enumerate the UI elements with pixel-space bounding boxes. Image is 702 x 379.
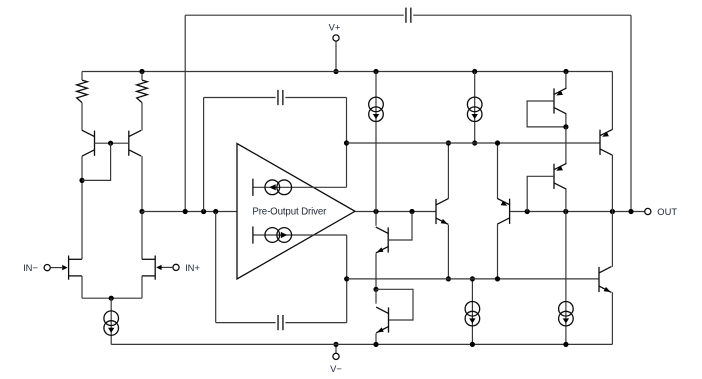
wire lower Miller loop bottom	[216, 322, 276, 324]
svg-text:IN−: IN−	[23, 262, 38, 273]
wire Q7 emitter vertical	[565, 72, 567, 89]
node Q2 collector / J2 drain / driver input	[139, 209, 144, 214]
node comp cap tap	[183, 209, 188, 214]
terminal OUT	[645, 206, 678, 217]
wire right drop of C3 to OUT node	[630, 15, 632, 211]
wire lower Miller loop right vertical	[346, 235, 348, 323]
wire upper internal source lead	[253, 186, 347, 188]
wire Q10 emitter to rail	[611, 292, 613, 344]
wire top compensation from input node to OUT	[185, 14, 404, 16]
node Q3 collector tap	[373, 209, 378, 214]
terminal V-	[330, 344, 342, 374]
node Q5 emitter rail junction	[373, 342, 378, 347]
wire upper Miller loop right vertical	[346, 98, 348, 188]
wire I6 vertical	[471, 279, 473, 345]
node Q6 collector bias tap	[495, 276, 500, 281]
node I6 top tap	[470, 276, 475, 281]
wire Q9 emitter from rail	[611, 72, 613, 130]
wire Q4 collector vertical	[447, 143, 449, 199]
wire Q1-Q2 base line	[95, 142, 129, 144]
node Q7 emitter rail junction	[563, 69, 568, 74]
wire lower internal source lead	[253, 234, 347, 236]
node Q5 diode tie	[373, 287, 378, 292]
wire upper Miller loop top	[204, 97, 276, 99]
capacitor C3	[406, 8, 411, 23]
svg-text:OUT: OUT	[657, 206, 677, 217]
wire tail vertical	[110, 298, 112, 344]
wire I4 vertical	[375, 72, 377, 212]
node lower bias line tap	[344, 276, 349, 281]
wire V- rail	[111, 343, 612, 345]
wire Q8 base link	[527, 176, 554, 211]
wire R1 to rail	[81, 72, 83, 81]
wire output net line	[510, 211, 645, 213]
resistor R2	[137, 80, 148, 103]
wire upper bias line	[347, 142, 601, 144]
terminal V+	[329, 22, 341, 72]
capacitor C1	[278, 90, 283, 105]
node Q4 emitter bias tap	[446, 276, 451, 281]
node Q7 collector / Q8 emitter junction	[563, 124, 568, 129]
node rail to R2	[139, 69, 144, 74]
node Q3 base tap	[409, 209, 414, 214]
node I6 rail junction	[470, 342, 475, 347]
current source I3	[253, 226, 292, 243]
wire Q7 base-collector loop	[527, 101, 566, 127]
current source I4	[369, 97, 384, 121]
current source I7	[559, 302, 574, 326]
op-amp U1 Pre-Output Driver	[237, 144, 355, 280]
wire input node line to driver	[142, 211, 237, 213]
node V+ rail junction	[333, 69, 338, 74]
wire V+ rail	[82, 71, 612, 73]
wire Q10 collector vertical	[611, 212, 613, 267]
terminal IN+	[156, 262, 200, 273]
node tail junction	[109, 296, 114, 301]
wire Q9 collector vertical	[611, 155, 613, 211]
wire Q5 diode loop	[376, 289, 413, 320]
wire driver output line	[355, 211, 436, 213]
wire lower Miller loop left vertical	[215, 212, 217, 323]
node Q6 emitter bias tap	[495, 140, 500, 145]
current source I1 tail	[104, 311, 119, 335]
wire R2 bottom lead to Q2 emitter	[141, 103, 143, 131]
node Q8 base tap	[525, 209, 530, 214]
wire Q4 emitter vertical	[447, 225, 449, 279]
wire I7 vertical	[565, 212, 567, 345]
wire J1 drain vertical	[81, 258, 83, 260]
current source I5	[467, 97, 482, 121]
node I7 rail junction	[563, 342, 568, 347]
wire upper Miller loop left vertical	[203, 98, 205, 212]
wire common source line	[82, 297, 142, 299]
current source I2	[253, 179, 292, 196]
wire Q6 collector vertical	[497, 224, 499, 279]
svg-text:V+: V+	[329, 22, 341, 33]
transistor Q10	[599, 267, 611, 293]
terminal IN-	[23, 262, 68, 273]
transistor Q2	[129, 130, 141, 156]
node upper bias line tap	[344, 140, 349, 145]
transistor Q6	[497, 198, 509, 224]
node V- rail junction	[333, 342, 338, 347]
wire Q3 emitter vertical	[375, 254, 377, 290]
wire lower bias line	[347, 278, 599, 280]
wire Q6 emitter vertical	[497, 143, 499, 199]
current source I6	[465, 302, 480, 326]
JFET J2	[142, 256, 155, 280]
wire Q5 emitter to rail	[375, 334, 377, 345]
transistor Q1	[82, 130, 94, 156]
node rail tap I4	[373, 69, 378, 74]
wire Q5 collector vertical	[375, 289, 377, 303]
wire J2 source vertical	[141, 276, 143, 298]
wire Q8 collector vertical	[565, 189, 567, 212]
capacitor C2	[278, 315, 283, 330]
svg-text:V−: V−	[330, 363, 342, 374]
node Q8 collector tap	[563, 209, 568, 214]
svg-text:IN+: IN+	[185, 262, 200, 273]
wire Q8 emitter vertical	[565, 127, 567, 164]
node lower Miller cap tap	[213, 209, 218, 214]
transistor Q3	[376, 227, 388, 253]
node Q1 base-collector tie	[108, 141, 113, 146]
wire Q2 collector down to input node	[141, 156, 143, 211]
wire J2 drain	[141, 212, 143, 260]
transistor Q8	[554, 163, 566, 189]
node Q4 collector bias tap	[446, 140, 451, 145]
wire J1 source vertical	[81, 276, 83, 298]
wire J2 drain vertical	[141, 258, 143, 260]
node upper Miller cap tap	[201, 209, 206, 214]
wire Q7 collector vertical	[565, 114, 567, 127]
JFET J1	[69, 256, 82, 280]
node Q1 collector junction	[79, 178, 84, 183]
transistor Q5	[376, 307, 388, 333]
node push-pull output junction	[610, 209, 615, 214]
wire R2 top lead	[141, 72, 143, 81]
wire Q1 diode connection	[82, 143, 111, 180]
transistor Q9	[600, 129, 612, 155]
node I5 bias tap	[472, 140, 477, 145]
node comp cap right tap	[628, 209, 633, 214]
wire R1 bottom lead to Q1 emitter	[81, 103, 83, 131]
wire left drop of C3 to input node	[184, 15, 186, 211]
wire Q3 collector vertical	[375, 212, 377, 226]
svg-text:Pre-Output Driver: Pre-Output Driver	[252, 207, 327, 218]
wire Q3 base link	[388, 212, 412, 241]
resistor R1	[77, 80, 88, 103]
node rail tap I5	[472, 69, 477, 74]
wire Q1 collector down	[81, 156, 83, 259]
transistor Q4	[436, 199, 448, 225]
wire I5 vertical	[474, 72, 476, 144]
transistor Q7	[554, 88, 566, 114]
